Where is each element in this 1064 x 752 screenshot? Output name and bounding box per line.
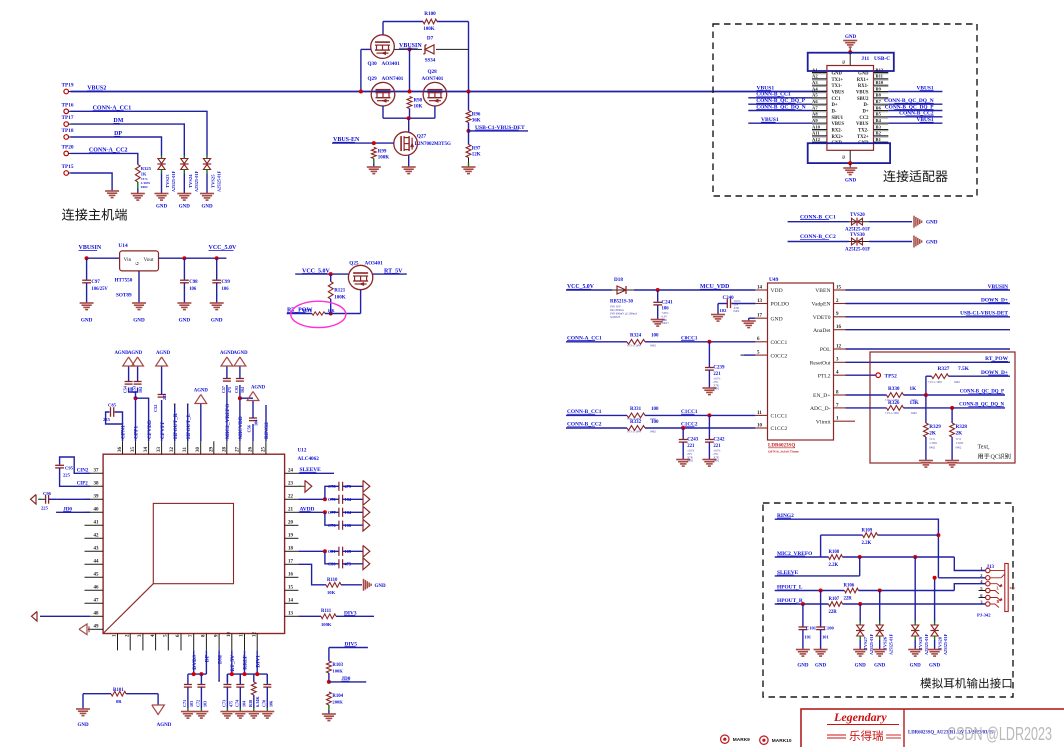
svg-text:13: 13	[757, 299, 763, 304]
svg-text:16: 16	[288, 572, 294, 577]
svg-text:28: 28	[222, 447, 227, 453]
svg-text:EN_D+: EN_D+	[813, 393, 830, 399]
svg-text:48: 48	[94, 611, 100, 616]
svg-text:0402: 0402	[650, 430, 656, 434]
svg-text:19: 19	[288, 533, 294, 538]
svg-text:104: 104	[240, 387, 245, 393]
svg-text:VDD: VDD	[771, 288, 783, 294]
svg-text:TX2-: TX2-	[858, 129, 869, 134]
svg-text:AON7401: AON7401	[382, 76, 404, 82]
svg-text:GND: GND	[211, 318, 223, 324]
svg-text:C98: C98	[189, 280, 198, 285]
svg-text:14: 14	[288, 598, 294, 603]
svg-text:12: 12	[836, 344, 842, 349]
svg-text:CIP2: CIP2	[77, 482, 89, 487]
svg-text:Q29: Q29	[368, 76, 378, 82]
svg-text:13: 13	[288, 611, 294, 616]
svg-text:C70: C70	[261, 700, 266, 707]
svg-text:D7: D7	[427, 36, 434, 42]
svg-text:17: 17	[288, 559, 294, 564]
svg-text:USB-C: USB-C	[874, 56, 890, 62]
svg-text:VBUS: VBUS	[832, 91, 845, 96]
svg-text:RX2+: RX2+	[832, 135, 844, 140]
svg-text:AO3401: AO3401	[382, 61, 401, 67]
svg-text:DIV1: DIV1	[255, 655, 261, 668]
svg-text:R329: R329	[929, 424, 941, 430]
svg-text:24: 24	[288, 468, 294, 473]
svg-text:C1CC2: C1CC2	[771, 426, 788, 432]
svg-text:Text,: Text,	[978, 445, 991, 451]
svg-text:AnaDet: AnaDet	[813, 328, 831, 334]
svg-text:C239: C239	[713, 366, 725, 371]
svg-text:Q28: Q28	[428, 69, 438, 75]
svg-text:47: 47	[94, 598, 100, 603]
svg-text:GND: GND	[133, 318, 145, 324]
svg-text:200K: 200K	[332, 700, 343, 705]
svg-text:G: G	[841, 155, 846, 159]
svg-text:R97: R97	[472, 147, 481, 152]
svg-text:VDET0: VDET0	[813, 315, 831, 321]
svg-text:Mic: Mic	[1010, 586, 1016, 590]
svg-text:106: 106	[222, 287, 230, 292]
svg-text:B2: B2	[876, 131, 882, 136]
svg-text:D+: D+	[862, 110, 868, 115]
svg-text:103: 103	[202, 701, 207, 707]
svg-text:43: 43	[94, 546, 100, 551]
svg-text:106: 106	[345, 523, 352, 528]
svg-text:R104: R104	[332, 694, 343, 699]
svg-text:40: 40	[94, 507, 100, 512]
svg-text:0402: 0402	[954, 380, 960, 384]
svg-text:B11: B11	[876, 74, 884, 79]
svg-text:TP52: TP52	[885, 373, 898, 379]
svg-text:C73: C73	[221, 700, 226, 707]
svg-text:AGND: AGND	[114, 351, 129, 356]
svg-text:C101: C101	[806, 626, 817, 631]
svg-text:QC: QC	[991, 455, 999, 461]
svg-text:15: 15	[288, 585, 294, 590]
svg-text:TVS23: TVS23	[165, 174, 170, 188]
svg-text:100K: 100K	[378, 156, 390, 161]
svg-text:R96: R96	[472, 113, 481, 118]
svg-text:GND: GND	[771, 316, 783, 322]
svg-text:A7: A7	[812, 105, 818, 110]
svg-text:PJ-342: PJ-342	[977, 613, 991, 618]
svg-text:GND: GND	[179, 205, 191, 210]
svg-text:C56: C56	[247, 424, 252, 432]
svg-text:20: 20	[288, 520, 294, 525]
svg-text:15: 15	[836, 285, 842, 290]
svg-text:AGND: AGND	[156, 351, 171, 356]
svg-text:C74: C74	[234, 699, 239, 707]
svg-text:45: 45	[94, 572, 100, 577]
svg-text:A25I25-01F: A25I25-01F	[869, 633, 874, 655]
svg-text:C85: C85	[108, 403, 117, 408]
svg-text:R103: R103	[332, 663, 343, 668]
svg-text:HPOUT_L: HPOUT_L	[186, 413, 192, 439]
svg-text:TP17: TP17	[62, 115, 74, 121]
svg-text:A11: A11	[812, 131, 820, 136]
svg-text:A9: A9	[812, 118, 818, 123]
svg-text:DM: DM	[217, 655, 223, 664]
svg-text:D-: D-	[832, 110, 837, 115]
svg-text:100K: 100K	[423, 27, 435, 32]
svg-text:TVS20: TVS20	[850, 213, 865, 218]
svg-text:L2N7002M3T5G: L2N7002M3T5G	[415, 142, 452, 147]
svg-text:TVS25: TVS25	[211, 174, 216, 188]
svg-text:MARK9: MARK9	[733, 737, 750, 743]
svg-text:A10: A10	[812, 124, 821, 129]
svg-text:106/25V: 106/25V	[91, 287, 108, 292]
svg-text:R111: R111	[321, 609, 332, 614]
svg-text:44: 44	[94, 559, 100, 564]
svg-text:CC1: CC1	[832, 97, 842, 102]
svg-text:±5% 1/16W: ±5% 1/16W	[627, 343, 641, 347]
svg-text:104: 104	[345, 497, 352, 502]
svg-text:10: 10	[227, 632, 232, 638]
svg-text:SOD523: SOD523	[610, 315, 621, 319]
svg-text:B3: B3	[876, 124, 882, 129]
svg-text:C80: C80	[328, 561, 336, 566]
svg-text:C77: C77	[328, 510, 336, 515]
svg-text:VBUS: VBUS	[832, 122, 845, 127]
svg-text:R100: R100	[424, 11, 436, 17]
svg-text:GND: GND	[179, 318, 191, 324]
svg-text:U49: U49	[769, 277, 779, 283]
svg-text:2.2K: 2.2K	[862, 541, 872, 546]
svg-text:100: 100	[651, 407, 659, 412]
svg-text:17: 17	[757, 314, 763, 319]
svg-text:B12: B12	[876, 67, 884, 72]
svg-text:C79: C79	[328, 497, 336, 502]
svg-text:101: 101	[804, 635, 811, 640]
svg-text:Legendary: Legendary	[833, 710, 887, 724]
svg-text:C57: C57	[221, 386, 226, 393]
svg-text:AON7401: AON7401	[422, 76, 444, 82]
svg-text:R99: R99	[378, 150, 387, 155]
svg-text:RING2: RING2	[264, 422, 270, 439]
svg-text:0402: 0402	[141, 185, 148, 189]
svg-text:35: 35	[131, 447, 136, 453]
svg-text:0402: 0402	[650, 343, 656, 347]
svg-text:POLDO: POLDO	[771, 302, 790, 308]
svg-text:25: 25	[261, 447, 266, 453]
svg-text:CIN2: CIN2	[77, 469, 89, 474]
svg-text:34: 34	[144, 447, 149, 453]
svg-text:AO3401: AO3401	[365, 261, 384, 267]
svg-text:TX1-: TX1-	[832, 84, 843, 89]
svg-text:AGND: AGND	[220, 351, 235, 356]
svg-text:CPP1: CPP1	[134, 426, 140, 439]
svg-text:A1: A1	[812, 67, 818, 72]
svg-text:CPVDD: CPVDD	[147, 420, 153, 439]
svg-text:ResetOut: ResetOut	[810, 361, 831, 367]
svg-text:TVS27: TVS27	[863, 636, 868, 650]
svg-text:AGND: AGND	[128, 351, 143, 356]
svg-text:104: 104	[241, 700, 246, 707]
svg-text:J11: J11	[861, 56, 869, 62]
svg-text:R331: R331	[630, 407, 642, 412]
svg-text:GND: GND	[81, 318, 93, 324]
svg-text:225: 225	[103, 417, 111, 422]
svg-text:Q27: Q27	[417, 133, 427, 139]
svg-text:C0CC2: C0CC2	[771, 353, 788, 359]
svg-text:HPOUT_R: HPOUT_R	[173, 413, 179, 439]
svg-text:10K: 10K	[414, 105, 423, 110]
svg-text:33: 33	[157, 447, 162, 453]
svg-text:TP16: TP16	[62, 102, 74, 108]
svg-text:225: 225	[41, 506, 49, 511]
svg-text:TX2+: TX2+	[857, 135, 869, 140]
svg-text:475: 475	[228, 701, 233, 707]
svg-text:D18: D18	[614, 277, 623, 283]
svg-text:C93: C93	[234, 386, 239, 393]
svg-text:R106: R106	[844, 584, 855, 589]
svg-text:MICVDD: MICVDD	[238, 416, 244, 439]
svg-text:GND: GND	[156, 205, 168, 210]
svg-text:1K: 1K	[910, 386, 917, 392]
svg-text:B4: B4	[876, 118, 882, 123]
svg-text:±1% 1/16W: ±1% 1/16W	[928, 380, 942, 384]
svg-text:100K: 100K	[332, 669, 343, 674]
svg-text:CSDN @LDR2023: CSDN @LDR2023	[947, 724, 1052, 744]
svg-text:A3: A3	[812, 80, 818, 85]
svg-text:L: L	[997, 586, 1000, 591]
svg-text:B5: B5	[876, 112, 882, 117]
svg-text:AGND: AGND	[157, 723, 172, 728]
svg-text:TP18: TP18	[62, 128, 74, 134]
svg-text:C99: C99	[222, 280, 231, 285]
svg-text:23: 23	[288, 481, 294, 486]
svg-text:A4: A4	[812, 86, 818, 91]
svg-text:VadpEN: VadpEN	[812, 302, 831, 308]
svg-text:GND: GND	[832, 72, 843, 77]
svg-text:R324: R324	[630, 334, 642, 339]
svg-text:D+: D+	[832, 103, 838, 108]
svg-text:TVS28: TVS28	[937, 636, 942, 650]
svg-text:A5: A5	[812, 93, 818, 98]
svg-text:21: 21	[288, 507, 294, 512]
svg-text:41: 41	[94, 520, 100, 525]
svg-text:GND: GND	[855, 664, 867, 669]
svg-text:AGND: AGND	[194, 389, 209, 394]
svg-text:DP: DP	[205, 654, 211, 662]
svg-text:C81: C81	[328, 549, 336, 554]
svg-text:103: 103	[189, 701, 194, 707]
svg-text:22R: 22R	[829, 610, 838, 615]
svg-text:RX1+: RX1+	[857, 78, 869, 83]
svg-text:±5% 1/16W: ±5% 1/16W	[627, 430, 641, 434]
svg-text:C71: C71	[182, 700, 187, 707]
svg-text:G: G	[841, 60, 846, 64]
svg-text:GND: GND	[858, 72, 869, 77]
svg-text:AGND: AGND	[251, 386, 266, 391]
svg-text:225: 225	[63, 473, 71, 478]
svg-text:22: 22	[288, 494, 294, 499]
svg-text:TP19: TP19	[62, 83, 74, 89]
svg-text:QFN16_3x3x0.75mm: QFN16_3x3x0.75mm	[768, 450, 799, 454]
svg-text:CPVPP: CPVPP	[160, 421, 166, 439]
svg-text:C95: C95	[65, 466, 74, 471]
svg-text:10K: 10K	[328, 308, 336, 313]
svg-text:10: 10	[757, 423, 763, 428]
svg-text:0402+: 0402+	[662, 321, 670, 325]
svg-text:A25I25-01F: A25I25-01F	[943, 633, 948, 655]
svg-text:R121: R121	[334, 289, 346, 294]
svg-text:12: 12	[252, 632, 257, 638]
svg-text:MARK10: MARK10	[772, 738, 792, 744]
svg-text:31: 31	[183, 447, 188, 453]
svg-text:13K: 13K	[910, 400, 919, 406]
svg-text:49: 49	[94, 624, 100, 629]
svg-text:0R: 0R	[116, 699, 122, 704]
svg-text:R109: R109	[862, 528, 873, 533]
svg-text:C97: C97	[91, 280, 100, 285]
svg-text:C100: C100	[824, 626, 835, 631]
svg-text:GND: GND	[845, 35, 857, 40]
svg-text:RREF: RREF	[243, 654, 249, 669]
svg-text:36: 36	[118, 447, 123, 453]
svg-text:104: 104	[345, 510, 352, 515]
svg-text:GND: GND	[77, 723, 89, 728]
svg-text:100: 100	[651, 420, 659, 425]
svg-text:A25I25-01F: A25I25-01F	[924, 633, 929, 655]
svg-text:DVDS: DVDS	[192, 655, 198, 670]
svg-text:C52: C52	[153, 405, 158, 412]
svg-text:RX1-: RX1-	[858, 84, 869, 89]
svg-text:A12: A12	[812, 137, 821, 142]
svg-text:475: 475	[227, 387, 232, 393]
svg-text:12K: 12K	[472, 153, 481, 158]
svg-text:CPN1: CPN1	[121, 425, 127, 439]
svg-text:2.2K: 2.2K	[829, 563, 839, 568]
svg-text:GND: GND	[926, 240, 938, 246]
svg-text:101: 101	[822, 635, 829, 640]
svg-text:2K: 2K	[929, 431, 936, 437]
svg-text:PTL2: PTL2	[818, 373, 831, 379]
svg-text:B8: B8	[876, 93, 882, 98]
svg-text:TVS26: TVS26	[883, 636, 888, 650]
svg-text:B1: B1	[876, 137, 882, 142]
svg-text:CC2: CC2	[859, 116, 869, 121]
svg-text:B6: B6	[876, 105, 882, 110]
svg-text:39: 39	[94, 494, 100, 499]
svg-text:±1% 1/16W: ±1% 1/16W	[885, 411, 899, 415]
svg-text:0402: 0402	[713, 459, 719, 463]
svg-text:C96: C96	[43, 491, 52, 496]
svg-text:475: 475	[345, 484, 352, 489]
svg-text:U12: U12	[298, 448, 307, 454]
svg-text:VBUS: VBUS	[856, 122, 869, 127]
svg-text:D-: D-	[864, 103, 869, 108]
svg-text:2K: 2K	[956, 431, 963, 437]
svg-text:RX2-: RX2-	[832, 129, 843, 134]
svg-text:16: 16	[836, 325, 842, 330]
svg-text:R175: R175	[303, 308, 312, 313]
svg-text:R98: R98	[414, 99, 423, 104]
svg-text:C1CC1: C1CC1	[771, 414, 788, 420]
svg-text:0402: 0402	[734, 309, 740, 313]
svg-text:C243: C243	[687, 438, 699, 443]
svg-text:Vlimit: Vlimit	[816, 419, 831, 425]
svg-text:0402: 0402	[911, 411, 917, 415]
svg-text:HT7550: HT7550	[115, 278, 133, 284]
svg-text:106: 106	[189, 287, 197, 292]
svg-text:MIC2_VREFO: MIC2_VREFO	[225, 404, 231, 439]
svg-text:C54: C54	[123, 386, 128, 393]
svg-text:R326: R326	[888, 400, 900, 406]
svg-text:B9: B9	[876, 86, 882, 91]
svg-text:VBEN: VBEN	[815, 288, 830, 294]
svg-text:GND: GND	[201, 205, 213, 210]
svg-text:Vin: Vin	[124, 257, 132, 263]
svg-text:SOT89: SOT89	[116, 293, 132, 299]
svg-text:TVS24: TVS24	[188, 174, 193, 188]
svg-text:TP15: TP15	[62, 164, 74, 170]
svg-text:104: 104	[138, 387, 143, 393]
svg-text:14: 14	[757, 285, 763, 290]
svg-text:GND: GND	[929, 664, 941, 669]
svg-text:C76: C76	[328, 523, 336, 528]
svg-text:1K: 1K	[141, 172, 147, 177]
svg-text:10K: 10K	[327, 590, 336, 595]
svg-text:GND: GND	[797, 664, 809, 669]
svg-text:GND: GND	[910, 664, 922, 669]
svg-text:11: 11	[240, 632, 245, 637]
svg-text:102: 102	[720, 308, 728, 313]
svg-text:27: 27	[235, 447, 240, 453]
svg-text:Q30: Q30	[368, 61, 378, 67]
svg-text:TP20: TP20	[62, 144, 74, 150]
svg-text:GND: GND	[815, 664, 827, 669]
svg-text:AGND: AGND	[233, 351, 248, 356]
svg-text:R107: R107	[829, 597, 840, 602]
svg-text:VBUS: VBUS	[856, 91, 869, 96]
svg-text:225: 225	[162, 394, 167, 400]
svg-text:A25I25-01F: A25I25-01F	[888, 633, 893, 655]
svg-text:37: 37	[94, 468, 100, 473]
svg-text:6.34K: 6.34K	[255, 696, 260, 707]
svg-text:106: 106	[268, 701, 273, 707]
svg-text:42: 42	[94, 533, 100, 538]
svg-text:26: 26	[248, 447, 253, 453]
svg-text:R108: R108	[829, 550, 840, 555]
svg-text:A25I25-01F: A25I25-01F	[845, 248, 870, 253]
svg-text:11: 11	[757, 411, 762, 416]
svg-text:100: 100	[651, 334, 659, 339]
svg-text:B7: B7	[876, 99, 882, 104]
svg-text:R330: R330	[888, 386, 900, 392]
svg-text:38: 38	[94, 481, 100, 486]
svg-text:C240: C240	[723, 296, 735, 301]
svg-text:G: G	[135, 262, 140, 265]
svg-text:7.5K: 7.5K	[958, 366, 970, 372]
svg-text:POL: POL	[820, 347, 831, 353]
svg-text:TVS29: TVS29	[918, 636, 923, 650]
svg-text:A25I25-01F: A25I25-01F	[217, 170, 222, 192]
svg-text:C72: C72	[195, 700, 200, 707]
svg-text:29: 29	[209, 447, 214, 453]
svg-text:C78: C78	[328, 484, 336, 489]
svg-text:0402: 0402	[956, 445, 962, 449]
svg-text:0402: 0402	[713, 387, 719, 391]
svg-text:A2: A2	[812, 74, 818, 79]
svg-text:TX1+: TX1+	[832, 78, 844, 83]
svg-text:R325: R325	[141, 166, 152, 171]
svg-text:J13: J13	[987, 565, 995, 570]
svg-text:A6: A6	[812, 99, 818, 104]
svg-text:C241: C241	[662, 301, 674, 306]
